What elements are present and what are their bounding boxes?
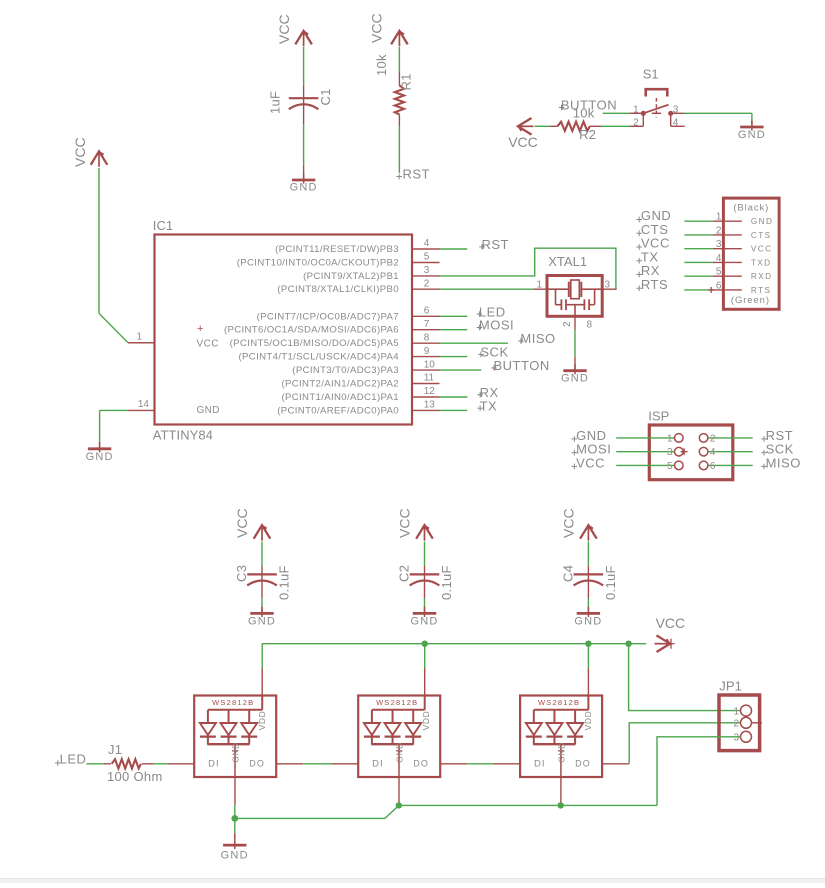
svg-text:GND: GND — [641, 208, 671, 223]
svg-text:DI: DI — [372, 758, 384, 769]
svg-text:3: 3 — [716, 239, 722, 250]
svg-text:11: 11 — [424, 373, 435, 384]
svg-text:7: 7 — [424, 319, 430, 330]
svg-text:VCC: VCC — [508, 134, 538, 150]
svg-text:GND: GND — [574, 616, 602, 628]
svg-text:(Black): (Black) — [733, 202, 769, 213]
svg-text:(PCINT6/OC1A/SDA/MOSI/ADC6)PA6: (PCINT6/OC1A/SDA/MOSI/ADC6)PA6 — [224, 325, 399, 336]
svg-text:C1: C1 — [318, 88, 333, 105]
svg-text:8: 8 — [424, 332, 430, 343]
svg-text:JP1: JP1 — [719, 679, 742, 694]
svg-text:R1: R1 — [399, 73, 414, 90]
svg-text:1: 1 — [536, 279, 542, 290]
svg-text:2: 2 — [424, 278, 430, 289]
svg-text:0.1uF: 0.1uF — [603, 565, 618, 600]
svg-text:RST: RST — [482, 237, 510, 252]
svg-text:VCC: VCC — [576, 455, 605, 470]
svg-text:5: 5 — [424, 252, 430, 263]
svg-text:GND: GND — [197, 405, 220, 416]
svg-text:VCC: VCC — [560, 508, 576, 538]
svg-text:9: 9 — [424, 346, 430, 357]
svg-text:C4: C4 — [560, 565, 575, 582]
svg-text:MOSI: MOSI — [576, 442, 611, 457]
svg-text:TX: TX — [641, 249, 659, 264]
svg-text:ATTINY84: ATTINY84 — [153, 427, 213, 442]
svg-text:10k: 10k — [374, 54, 389, 76]
svg-text:MOSI: MOSI — [479, 318, 514, 333]
svg-text:DO: DO — [249, 758, 265, 768]
svg-text:GND: GND — [231, 742, 241, 762]
svg-text:GND: GND — [221, 849, 249, 861]
svg-text:4: 4 — [710, 447, 716, 458]
svg-text:1: 1 — [633, 105, 639, 116]
svg-text:4: 4 — [673, 118, 679, 129]
svg-text:(PCINT7/ICP/OC0B/ADC7)PA7: (PCINT7/ICP/OC0B/ADC7)PA7 — [257, 311, 399, 322]
svg-text:BUTTON: BUTTON — [494, 358, 550, 373]
svg-text:VCC: VCC — [656, 615, 686, 631]
svg-text:GND: GND — [290, 182, 318, 194]
svg-text:VCC: VCC — [72, 137, 88, 167]
svg-text:VDD: VDD — [421, 711, 431, 731]
svg-text:S1: S1 — [643, 67, 659, 82]
svg-text:VCC: VCC — [369, 13, 385, 43]
svg-text:3: 3 — [605, 279, 611, 290]
svg-text:DO: DO — [413, 758, 429, 768]
svg-text:2: 2 — [633, 118, 639, 129]
svg-text:VCC: VCC — [397, 508, 413, 538]
svg-text:RTS: RTS — [751, 286, 771, 295]
svg-text:R2: R2 — [579, 127, 596, 142]
svg-text:(Green): (Green) — [731, 295, 770, 306]
svg-text:1: 1 — [733, 706, 739, 717]
svg-text:4: 4 — [424, 238, 430, 249]
svg-text:RXD: RXD — [751, 272, 773, 281]
svg-text:C3: C3 — [234, 565, 249, 582]
svg-text:(PCINT3/T0/ADC3)PA3: (PCINT3/T0/ADC3)PA3 — [292, 365, 399, 376]
svg-text:1uF: 1uF — [268, 91, 283, 114]
svg-text:RST: RST — [766, 428, 794, 443]
svg-text:VCC: VCC — [197, 338, 219, 349]
svg-text:1: 1 — [716, 212, 722, 223]
svg-text:10: 10 — [424, 359, 436, 370]
svg-text:(PCINT10/INT0/OC0A/CKOUT)PB2: (PCINT10/INT0/OC0A/CKOUT)PB2 — [237, 258, 399, 269]
svg-text:100 Ohm: 100 Ohm — [107, 769, 163, 784]
svg-text:(PCINT2/AIN1/ADC2)PA2: (PCINT2/AIN1/ADC2)PA2 — [281, 379, 399, 390]
svg-text:GND: GND — [86, 451, 114, 463]
svg-text:1: 1 — [667, 433, 673, 444]
svg-text:6: 6 — [424, 306, 430, 317]
svg-text:3: 3 — [667, 447, 673, 458]
svg-text:4: 4 — [716, 253, 722, 264]
svg-text:ISP: ISP — [648, 409, 669, 424]
svg-text:WS2812B: WS2812B — [376, 698, 418, 707]
svg-text:3: 3 — [733, 733, 739, 744]
svg-text:(PCINT8/XTAL1/CLKI)PB0: (PCINT8/XTAL1/CLKI)PB0 — [277, 284, 399, 295]
svg-text:13: 13 — [424, 400, 436, 411]
svg-text:(PCINT11/RESET/DW)PB3: (PCINT11/RESET/DW)PB3 — [275, 244, 399, 255]
svg-text:GND: GND — [738, 129, 766, 141]
svg-text:(PCINT5/OC1B/MISO/DO/ADC5)PA5: (PCINT5/OC1B/MISO/DO/ADC5)PA5 — [230, 338, 399, 349]
svg-text:WS2812B: WS2812B — [538, 698, 580, 707]
svg-text:MISO: MISO — [520, 331, 555, 346]
svg-text:VCC: VCC — [234, 508, 250, 538]
svg-text:(PCINT1/AIN0/ADC1)PA1: (PCINT1/AIN0/ADC1)PA1 — [281, 392, 399, 403]
svg-text:VDD: VDD — [583, 711, 593, 731]
svg-text:0.1uF: 0.1uF — [439, 565, 454, 600]
svg-text:3: 3 — [424, 265, 430, 276]
svg-text:3: 3 — [673, 105, 679, 116]
svg-text:VCC: VCC — [641, 236, 670, 251]
svg-text:6: 6 — [716, 280, 722, 291]
svg-text:GND: GND — [576, 428, 606, 443]
svg-text:2: 2 — [562, 321, 573, 327]
svg-text:RTS: RTS — [641, 277, 668, 292]
svg-text:GND: GND — [561, 373, 589, 385]
svg-text:VCC: VCC — [751, 245, 773, 254]
svg-text:2: 2 — [710, 433, 716, 444]
svg-text:CTS: CTS — [751, 231, 772, 240]
svg-text:0.1uF: 0.1uF — [276, 565, 291, 600]
svg-text:BUTTON: BUTTON — [561, 98, 617, 113]
svg-text:2: 2 — [716, 225, 722, 236]
svg-text:GND: GND — [556, 742, 566, 762]
svg-text:RST: RST — [403, 167, 431, 182]
svg-text:LED: LED — [60, 752, 87, 767]
svg-text:(PCINT9/XTAL2)PB1: (PCINT9/XTAL2)PB1 — [303, 271, 399, 282]
svg-text:2: 2 — [733, 719, 739, 730]
svg-text:8: 8 — [587, 320, 593, 331]
svg-text:+: + — [197, 323, 203, 335]
svg-text:VDD: VDD — [257, 711, 267, 731]
svg-text:XTAL1: XTAL1 — [548, 254, 587, 269]
svg-text:GND: GND — [395, 742, 405, 762]
svg-text:RX: RX — [641, 263, 660, 278]
svg-text:5: 5 — [716, 267, 722, 278]
svg-text:GND: GND — [248, 616, 276, 628]
svg-text:J1: J1 — [108, 742, 122, 757]
svg-text:GND: GND — [410, 616, 438, 628]
svg-text:DI: DI — [534, 758, 546, 769]
svg-text:GND: GND — [751, 217, 773, 226]
svg-text:DO: DO — [575, 758, 591, 768]
svg-text:VCC: VCC — [276, 14, 292, 44]
svg-text:C2: C2 — [396, 565, 411, 582]
svg-text:CTS: CTS — [641, 222, 669, 237]
svg-text:14: 14 — [138, 399, 150, 410]
svg-text:DI: DI — [208, 758, 220, 769]
svg-text:(PCINT0/AREF/ADC0)PA0: (PCINT0/AREF/ADC0)PA0 — [277, 405, 399, 416]
svg-text:5: 5 — [667, 461, 673, 472]
svg-text:6: 6 — [710, 461, 716, 472]
svg-text:TXD: TXD — [751, 258, 772, 267]
svg-text:SCK: SCK — [766, 442, 794, 457]
svg-text:(PCINT4/T1/SCL/USCK/ADC4)PA4: (PCINT4/T1/SCL/USCK/ADC4)PA4 — [239, 352, 400, 363]
svg-text:TX: TX — [480, 398, 498, 413]
svg-text:MISO: MISO — [766, 455, 801, 470]
svg-text:IC1: IC1 — [153, 218, 173, 233]
svg-text:WS2812B: WS2812B — [212, 698, 254, 707]
svg-text:1: 1 — [136, 332, 142, 343]
svg-text:12: 12 — [424, 386, 436, 397]
